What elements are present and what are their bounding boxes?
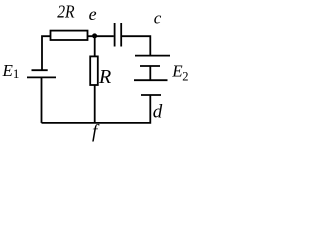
capacitor c left plate bbox=[114, 23, 116, 47]
battery E2 long plate 2 bbox=[134, 79, 168, 81]
battery E2 short plate 2 bbox=[141, 94, 161, 96]
svg-text:f: f bbox=[92, 122, 100, 143]
battery E2 short plate 1 bbox=[140, 65, 160, 67]
svg-text:e: e bbox=[89, 4, 97, 24]
wire 2R to node e and on to capacitor bbox=[88, 35, 114, 37]
svg-text:2R: 2R bbox=[57, 1, 74, 21]
wire capacitor to top-right corner bbox=[122, 36, 150, 55]
wire top-left horizontal bbox=[42, 36, 51, 70]
battery E1 short plate bbox=[32, 69, 48, 71]
battery E1 long plate bbox=[27, 76, 56, 78]
svg-text:R: R bbox=[98, 66, 111, 88]
node e junction dot bbox=[92, 33, 97, 38]
svg-text:E2: E2 bbox=[171, 62, 188, 84]
svg-text:d: d bbox=[153, 102, 163, 123]
svg-text:E1: E1 bbox=[2, 61, 20, 81]
wire E2 bottom to corner d and bottom rail bbox=[42, 95, 151, 123]
wire R down to node f bbox=[94, 85, 96, 124]
wire E1 bottom to rail bbox=[41, 77, 43, 123]
capacitor c right plate bbox=[120, 23, 122, 47]
wire node e down to R bbox=[94, 36, 96, 56]
wire E2 inter-cell connector bbox=[149, 66, 151, 80]
battery E2 long plate 1 bbox=[135, 55, 170, 57]
resistor R bbox=[90, 56, 98, 85]
resistor 2R bbox=[51, 31, 88, 40]
svg-text:c: c bbox=[154, 9, 162, 28]
